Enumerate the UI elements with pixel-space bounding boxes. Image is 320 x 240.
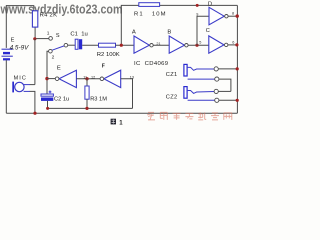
svg-text:S: S [56, 33, 60, 39]
svg-text:F: F [102, 63, 105, 69]
svg-text:C: C [206, 28, 210, 34]
svg-text:11: 11 [83, 75, 87, 79]
wire node to E bubble [47, 78, 55, 80]
watermark www.sydzdiy.6to23.com [0, 2, 123, 17]
wire CZ2 sleeve to right rail [219, 99, 239, 102]
svg-text:B: B [167, 29, 171, 35]
wire CZ2 tip from CZ1 sleeve [218, 90, 231, 92]
svg-text:CZ1: CZ1 [166, 72, 177, 78]
svg-text:C2 1u: C2 1u [54, 96, 69, 102]
wire CZ1 tip to right rail [218, 67, 238, 70]
svg-text:R1 10M: R1 10M [134, 11, 166, 17]
resistor R1 [139, 3, 160, 7]
svg-text:R4 2K: R4 2K [40, 13, 57, 19]
svg-text:12: 12 [91, 75, 95, 79]
svg-text:2: 2 [52, 54, 55, 60]
svg-text:D: D [208, 2, 212, 8]
wire A to B [153, 44, 169, 46]
op-amp U1E inverter E [55, 70, 76, 87]
wire C output to right rail [228, 43, 239, 46]
node on top rail [196, 4, 199, 7]
caption 图 1 [111, 119, 124, 127]
op-amp U1D inverter D [209, 7, 228, 25]
svg-text:www.sydzdiy.6to23.com: www.sydzdiy.6to23.com [0, 2, 123, 17]
svg-text:A: A [132, 29, 136, 35]
wire MIC bottom lead to ground [30, 91, 37, 114]
wire left frame upper (battery +) [5, 5, 7, 48]
svg-text:R2 100K: R2 100K [97, 52, 120, 58]
svg-text:R3 1M: R3 1M [90, 96, 107, 102]
svg-text:E: E [57, 65, 61, 71]
watermark 实用电子制作网 [147, 112, 232, 120]
connector CZ1 [184, 64, 219, 81]
wire bottom frame (ground rail) [6, 112, 237, 114]
wire F input down to oscillator net [121, 79, 133, 109]
svg-text:9: 9 [196, 12, 198, 16]
svg-text:21: 21 [156, 42, 160, 46]
svg-text:4.5-9V: 4.5-9V [10, 44, 30, 51]
svg-text:1: 1 [47, 31, 50, 37]
wire node up to D input [197, 16, 209, 45]
wire switch term2 down to E-output node [47, 51, 49, 94]
capacitor C1 [75, 39, 82, 49]
wire top-left V+ segment [6, 6, 34, 12]
op-amp U1C inverter C [209, 36, 228, 53]
wire left frame lower [5, 60, 7, 113]
svg-text:CZ2: CZ2 [166, 95, 177, 101]
wire switch pole to C1 [68, 44, 75, 46]
wire E input to F output node [76, 77, 100, 80]
svg-text:13: 13 [130, 76, 134, 80]
svg-text:IC CD4069: IC CD4069 [134, 61, 168, 67]
wire node A to MIC [34, 39, 36, 85]
node C (E output / switch 2 / C2) [45, 77, 48, 80]
wire B to C with node [188, 44, 209, 47]
svg-text:E: E [11, 37, 15, 43]
svg-text:5: 5 [199, 41, 201, 45]
node A (R4 / switch / MIC bias) [33, 37, 49, 40]
wire oscillator bottom net [46, 107, 132, 110]
resistor R4 [32, 11, 37, 39]
resistor R3 [85, 79, 89, 109]
node B (A input / R1) [120, 44, 123, 47]
wire right frame [236, 5, 238, 113]
svg-text:8: 8 [232, 12, 234, 16]
svg-text:MIC: MIC [14, 76, 26, 82]
battery E [2, 49, 13, 59]
wire D output to right rail [228, 14, 239, 17]
svg-text:6: 6 [232, 40, 234, 44]
wire MIC top lead to bias node line [30, 84, 35, 86]
op-amp U1B inverter B [169, 36, 188, 53]
op-amp U1A inverter A [134, 36, 153, 53]
resistor R2 [99, 43, 116, 47]
microphone MIC [12, 82, 30, 93]
wire R2 to inverter A [116, 44, 135, 46]
wire C1 to R2 [82, 44, 98, 46]
capacitor C2 [41, 91, 53, 109]
switch S [49, 37, 68, 53]
svg-text:C1 1u: C1 1u [70, 31, 87, 37]
wire top feedback rail [121, 5, 237, 45]
op-amp U1F inverter F [100, 70, 121, 87]
wire CZ1 sleeve to CZ2 tip [219, 79, 231, 91]
connector CZ2 [184, 87, 219, 103]
